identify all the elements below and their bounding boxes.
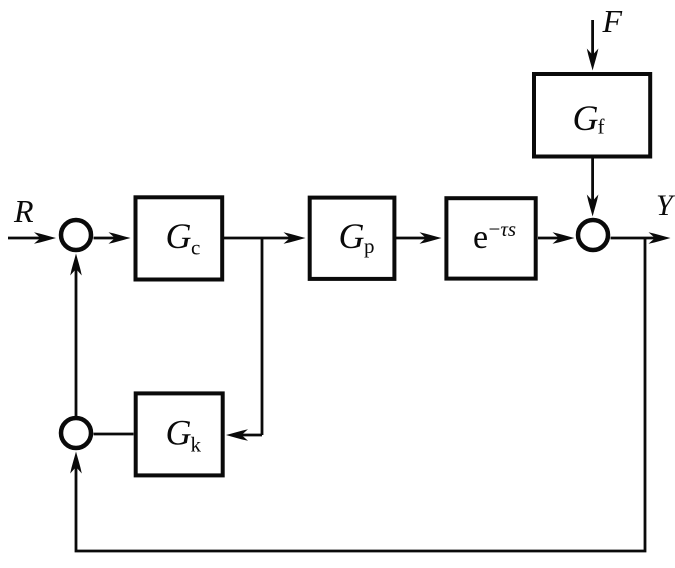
arrowhead output Y	[649, 232, 671, 244]
block Gk	[136, 393, 223, 475]
wire F into Gf	[591, 20, 594, 58]
wire Gp to delay block	[396, 237, 428, 240]
wire Gk to S3	[94, 433, 134, 436]
summing junction S2	[578, 220, 608, 250]
svg-text:G: G	[573, 98, 599, 138]
wire outer feedback from output to summer S3	[76, 238, 645, 551]
wire Gc to Gp	[224, 237, 292, 240]
wire S1 to Gc	[94, 237, 121, 240]
arrowhead into S1 from below	[70, 254, 82, 276]
wire Gf to summer S2	[591, 158, 594, 205]
arrowhead into Gk	[226, 429, 248, 441]
label Gk	[166, 413, 202, 457]
svg-text:G: G	[166, 216, 192, 256]
svg-text:p: p	[364, 234, 375, 258]
svg-text:R: R	[13, 193, 34, 229]
block Gc	[136, 197, 223, 279]
wire delay to summer S2	[538, 237, 562, 240]
svg-text:G: G	[339, 216, 365, 256]
svg-text:G: G	[166, 413, 192, 453]
block Gf	[534, 74, 650, 157]
arrowhead into delay block	[420, 232, 442, 244]
arrowhead into S2	[553, 232, 575, 244]
summing junction S3	[61, 418, 91, 448]
block Gp	[310, 198, 395, 279]
svg-text:−τs: −τs	[489, 217, 517, 241]
svg-text:f: f	[598, 115, 605, 139]
wire R input into summer S1	[8, 237, 45, 240]
svg-text:F: F	[602, 3, 623, 39]
wire branch down from Gc output	[261, 238, 264, 435]
wire S2 to output Y	[611, 237, 657, 240]
label Gc	[166, 216, 201, 260]
block e^-tau-s delay	[446, 198, 535, 278]
arrowhead into Gc	[109, 232, 131, 244]
svg-text:Y: Y	[656, 189, 675, 222]
svg-text:k: k	[191, 433, 202, 457]
label Gp	[339, 216, 375, 258]
wire branch into Gk	[240, 434, 262, 437]
svg-text:e: e	[473, 219, 488, 256]
arrowhead into Gp	[284, 232, 306, 244]
arrowhead into S1	[34, 232, 56, 244]
label e^-tau-s	[473, 217, 516, 256]
label Gf	[573, 98, 605, 139]
arrowhead into S2 from Gf	[587, 195, 599, 217]
wire S3 up to S1	[75, 265, 78, 416]
arrowhead into S3 from below	[70, 452, 82, 474]
svg-text:c: c	[191, 236, 200, 260]
summing junction S1	[61, 220, 91, 250]
arrowhead into Gf	[587, 49, 599, 71]
